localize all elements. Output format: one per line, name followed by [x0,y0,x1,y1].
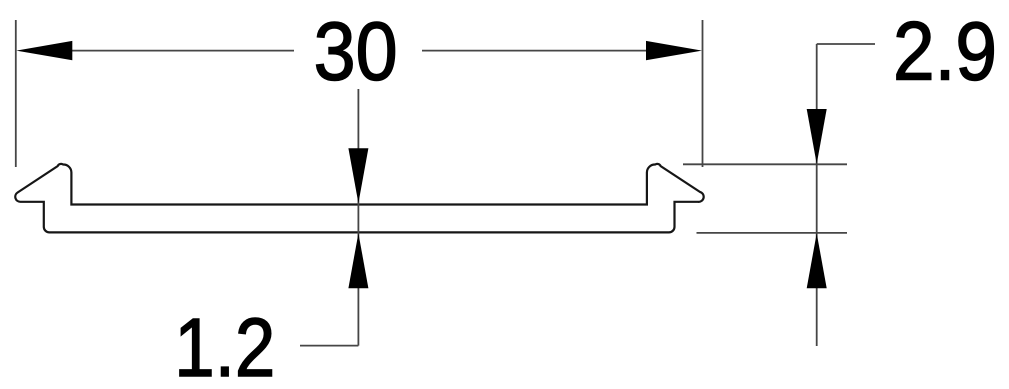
profile outline (aluminium strip cross-section with hooked ends) [15,164,703,232]
extension line top (2.9 dim) [683,163,847,165]
arrowhead right (30 dim) [646,41,702,60]
arrowhead down (1.2 dim, above strip) [348,148,368,203]
arrowhead down (2.9 dim, above) [807,109,827,164]
extension line left (30 dim) [15,20,17,167]
dimension line 1.2 (vertical through strip) [357,89,359,346]
svg-text:2.9: 2.9 [893,5,997,98]
leader line 1.2 [300,345,358,347]
dimension line 2.9 (vertical) [816,44,818,346]
extension line bottom (2.9 dim) [697,232,848,234]
leader line 2.9 [817,43,875,45]
dimension line 30, right segment [422,50,648,52]
arrowhead up (1.2 dim, below strip) [348,233,368,288]
arrowhead left (30 dim) [16,41,72,60]
arrowhead up (2.9 dim, below) [807,233,827,288]
svg-text:1.2: 1.2 [174,301,275,384]
dimension line 30, left segment [70,50,294,52]
svg-text:30: 30 [314,5,398,98]
extension line right (30 dim) [702,20,704,167]
